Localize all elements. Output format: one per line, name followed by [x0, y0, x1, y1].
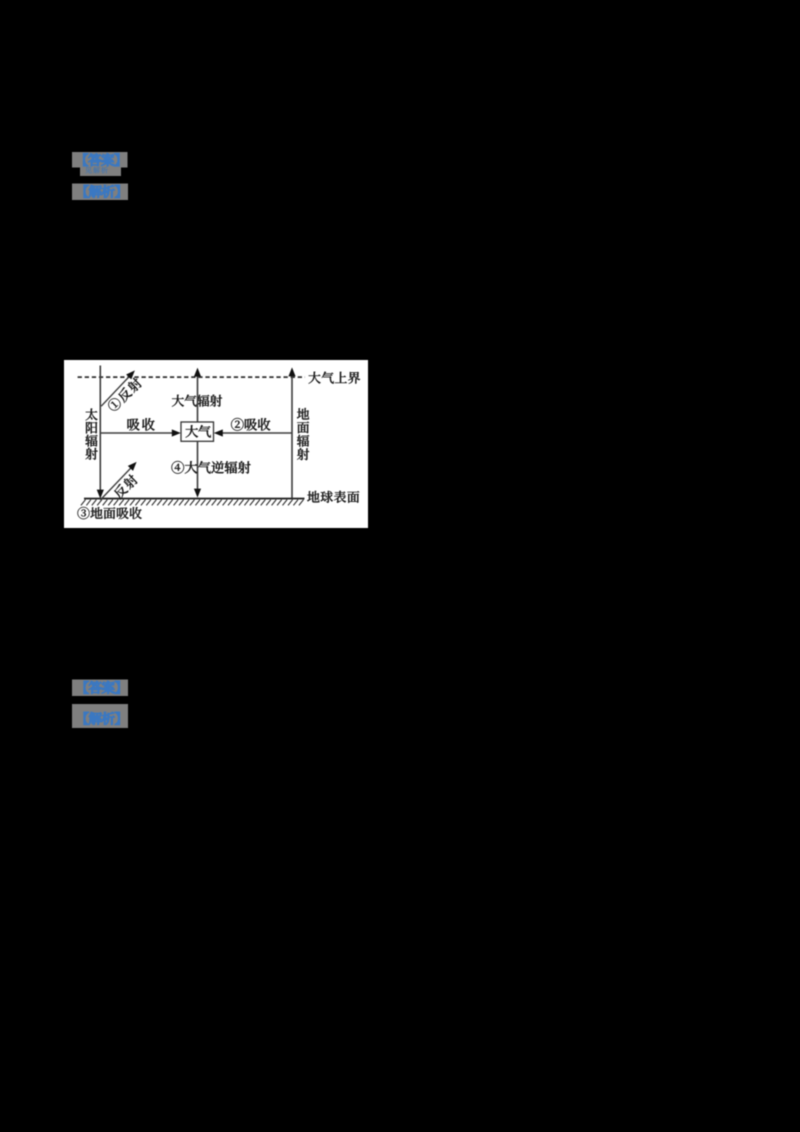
dashed line: top of atmosphere: [78, 376, 305, 378]
label ④大气逆辐射: [172, 461, 184, 474]
answer item 2: gray highlight with blue 【答案】: [72, 680, 128, 697]
label 地面辐射 (vertical): [297, 408, 309, 420]
ground surface line: [84, 498, 305, 500]
label 吸收: [128, 418, 140, 430]
label 太阳辐射 (vertical): [85, 409, 97, 421]
ground radiation vertical line with up arrow: [291, 374, 293, 498]
label 大气上界: [308, 372, 320, 384]
label 地球表面: [307, 491, 319, 503]
label ③地面吸收: [77, 507, 89, 519]
answer item 1: gray highlight with blue 【答案】: [72, 152, 128, 168]
label ②吸收: [231, 418, 243, 431]
analysis item 2: tall gray highlight with blue 【解析】: [72, 704, 128, 728]
analysis item 1: gray highlight with blue 【解析】: [72, 184, 128, 201]
label 大气辐射: [172, 395, 184, 407]
absorption arrow from solar line into box: [100, 432, 174, 434]
diagram: atmosphere radiation figure (white panel): [64, 360, 368, 528]
label 反射 (rotated, near ground): [112, 473, 139, 500]
absorption arrow from ground-radiation line into box (②吸收): [220, 432, 292, 434]
ground reflection arrow (up-right): [100, 465, 133, 500]
answer item 1 continuation: small highlight row: [80, 168, 121, 177]
atmosphere box 大气: [181, 422, 214, 441]
label ①反射 (rotated): [106, 376, 143, 413]
arrow ① reflection (up-right across dashed line): [101, 374, 131, 406]
center line up: atmosphere radiation arrow to space: [197, 374, 199, 422]
ground hatching: [81, 500, 304, 506]
solar radiation vertical line with down arrow: [99, 366, 101, 492]
center line down: counter radiation arrow to ground: [197, 441, 199, 490]
